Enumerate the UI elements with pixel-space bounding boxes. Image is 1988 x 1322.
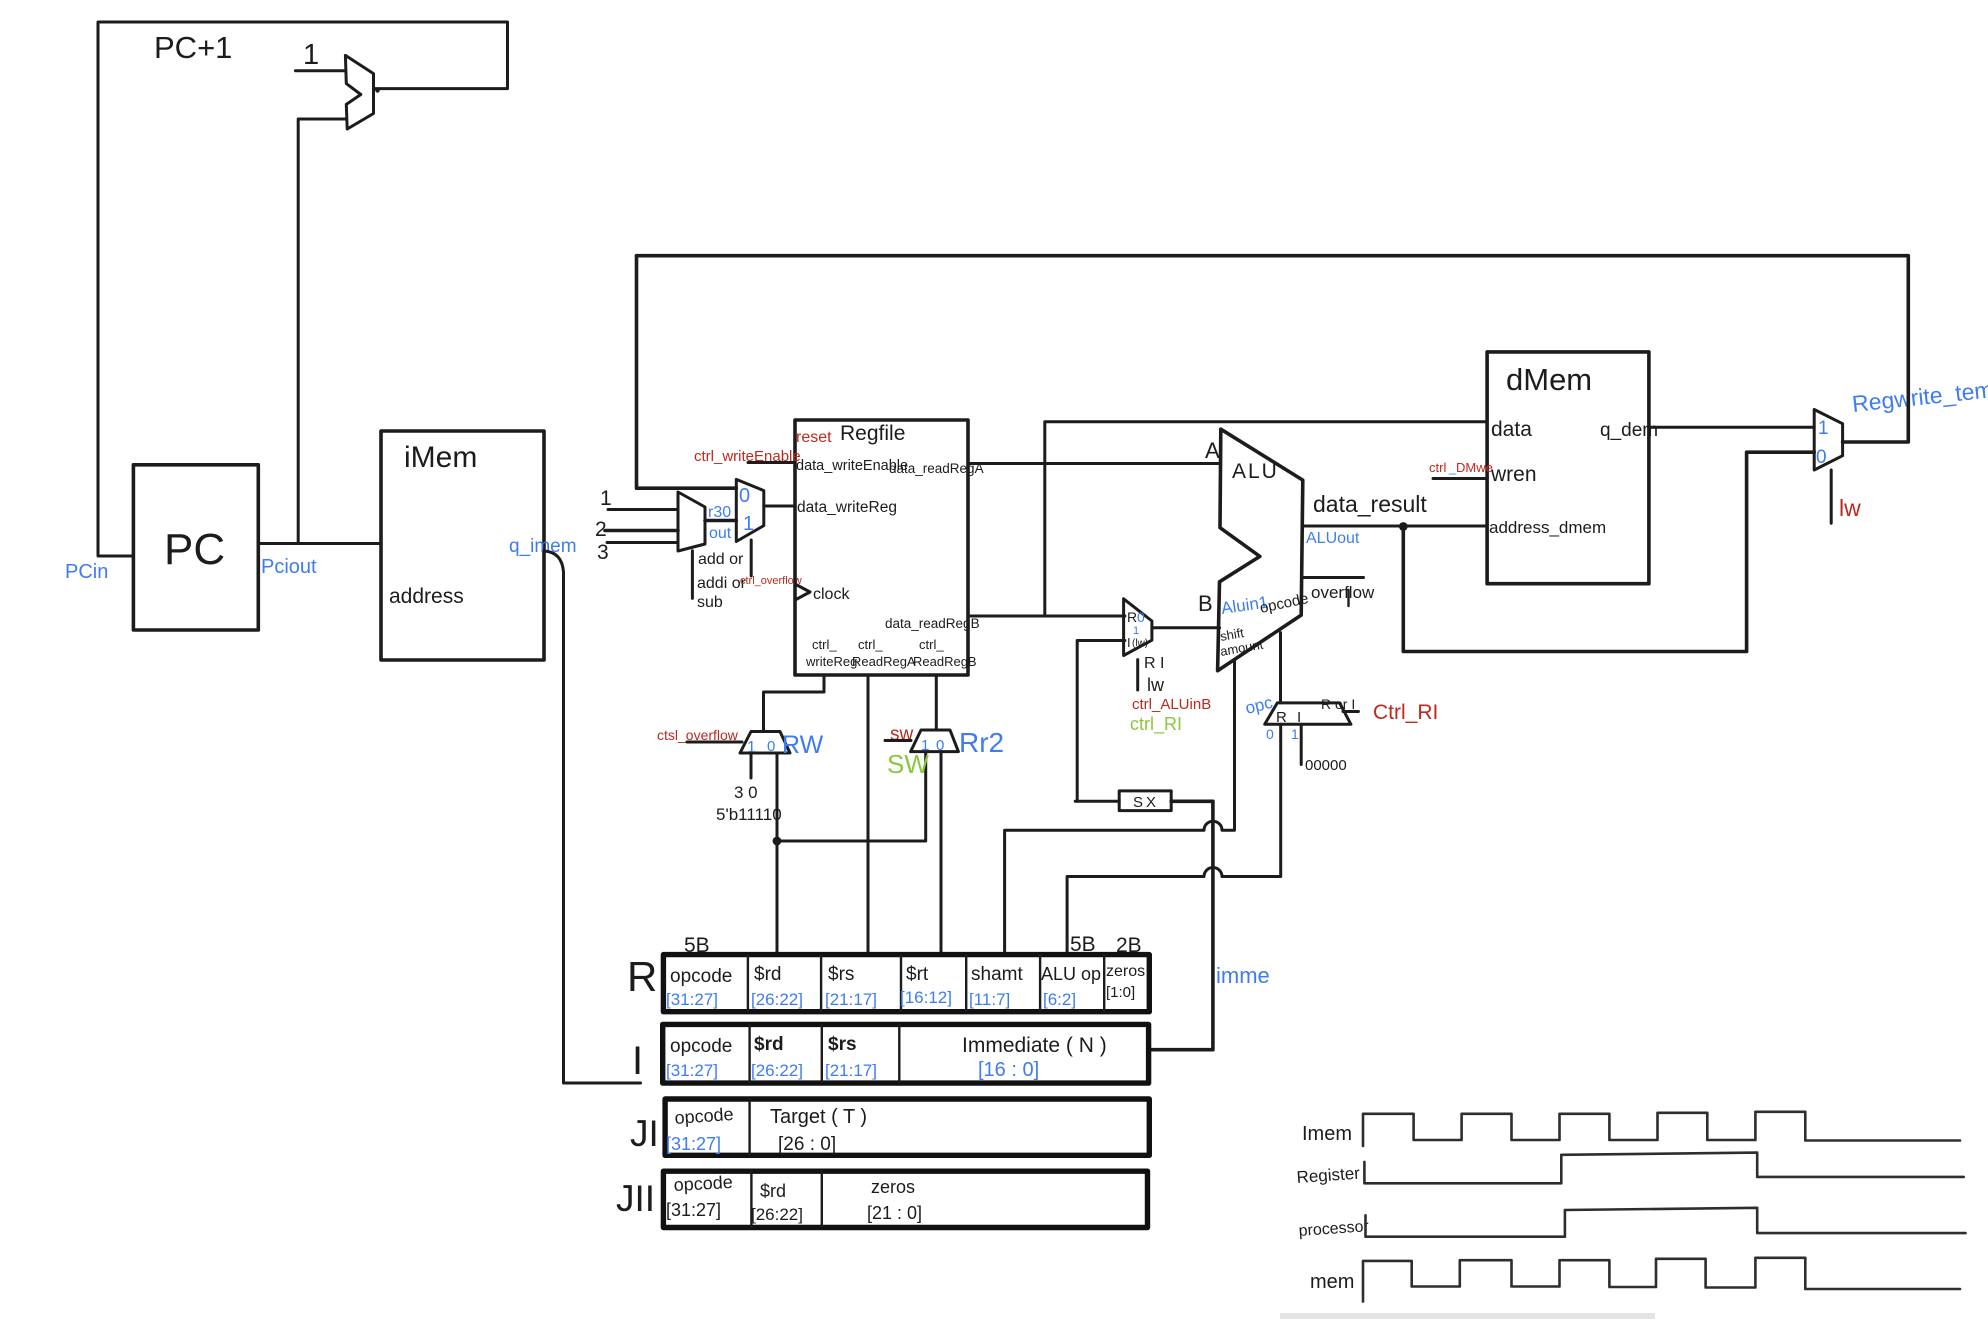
svg-text:r30: r30 (708, 504, 731, 521)
svg-text:opcode: opcode (670, 966, 732, 987)
wire input 3 (607, 541, 678, 544)
waveform Imem clock (1363, 1112, 1960, 1146)
svg-text:ctrl_: ctrl_ (858, 637, 883, 652)
svg-text:[26:22]: [26:22] (751, 1205, 803, 1224)
svg-text:processor: processor (1298, 1218, 1370, 1240)
wire mux2 select (750, 540, 753, 576)
instruction box JI (665, 1099, 1149, 1155)
svg-text:0: 0 (1137, 609, 1145, 625)
wire q_dem to lw mux 1 input (1649, 426, 1814, 429)
svg-text:Regwrite_temp: Regwrite_temp (1851, 375, 1988, 417)
svg-text:0: 0 (767, 738, 775, 755)
wire RW select (687, 741, 742, 744)
wire opcode from RI mux to ALU (1279, 633, 1282, 703)
junction dot RW output branch (773, 837, 782, 846)
junction dot ALU output (1399, 522, 1408, 531)
wire data_readRegA to ALU A (968, 462, 1220, 465)
mux RW (740, 732, 790, 754)
svg-text:sub: sub (697, 594, 723, 611)
mux writeback-select (736, 479, 764, 541)
svg-text:0: 0 (739, 485, 750, 507)
svg-text:ctrl_overflow: ctrl_overflow (740, 575, 802, 587)
memory iMem (381, 431, 544, 660)
svg-text:iMem: iMem (404, 441, 477, 474)
svg-text:clock: clock (813, 586, 850, 603)
wire RI mux 0 input from R box ALU op (1067, 724, 1281, 952)
wire constant 00000 input (1300, 724, 1303, 764)
svg-text:[26 : 0]: [26 : 0] (778, 1134, 836, 1155)
svg-text:imme: imme (1216, 963, 1270, 988)
svg-text:[21 : 0]: [21 : 0] (867, 1203, 922, 1223)
svg-text:zeros: zeros (1106, 963, 1145, 980)
svg-text:[31:27]: [31:27] (666, 990, 718, 1009)
svg-text:SW: SW (887, 749, 929, 779)
svg-text:opcode: opcode (670, 1036, 732, 1057)
instruction box JII (663, 1171, 1147, 1227)
svg-text:$rs: $rs (828, 1034, 857, 1055)
svg-text:1: 1 (1818, 418, 1829, 439)
wire mux1 select add or addi or sub (691, 551, 694, 599)
svg-text:ctrl_: ctrl_ (919, 637, 944, 652)
svg-text:JI: JI (630, 1113, 659, 1154)
svg-text:[31:27]: [31:27] (666, 1200, 721, 1220)
register PC (133, 465, 258, 630)
svg-text:[11:7]: [11:7] (969, 990, 1010, 1009)
svg-text:0: 0 (1816, 447, 1827, 468)
svg-text:mem: mem (1310, 1271, 1354, 1293)
clock triangle (795, 584, 810, 600)
svg-text:shamt: shamt (971, 964, 1023, 985)
svg-text:q_dem: q_dem (1600, 420, 1658, 441)
svg-text:Target ( T ): Target ( T ) (770, 1106, 867, 1128)
svg-text:ctrl_: ctrl_ (812, 637, 837, 652)
svg-text:[21:17]: [21:17] (825, 1061, 877, 1080)
svg-text:3 0: 3 0 (734, 783, 758, 802)
waveform mem clock (1363, 1258, 1960, 1302)
wire adder output feedback loop to PCin (98, 22, 508, 556)
svg-text:0: 0 (1266, 726, 1274, 742)
svg-text:Regfile: Regfile (840, 422, 905, 445)
svg-text:data_writeReg: data_writeReg (797, 499, 897, 516)
wire ctrl_writeEnable into regfile (748, 461, 795, 464)
svg-text:Register: Register (1296, 1164, 1361, 1187)
svg-text:overflow: overflow (1311, 583, 1375, 602)
svg-text:R I: R I (1144, 655, 1164, 672)
svg-text:Rr2: Rr2 (959, 727, 1004, 758)
wire imme vertical from I box (1149, 801, 1213, 1049)
waveform Register (1364, 1153, 1963, 1184)
wire ALU result loop to lw mux 0 input (1403, 452, 1814, 651)
svg-text:ReadRegA: ReadRegA (852, 654, 916, 669)
svg-text:1: 1 (1291, 726, 1299, 742)
svg-text:[21:17]: [21:17] (825, 990, 877, 1009)
wire lw mux output feedback to writeback mux (637, 256, 1909, 442)
svg-text:Imem: Imem (1302, 1123, 1352, 1145)
svg-text:A: A (1205, 438, 1220, 463)
field separator JI (748, 1099, 750, 1155)
wire RW output down to R box $rd with branch to Rr2 (777, 752, 926, 952)
svg-text:RW: RW (782, 731, 824, 759)
junction dot adder output (375, 88, 379, 92)
field separators R (748, 955, 1104, 1011)
wire PC output to iMem address (258, 542, 381, 545)
svg-text:data_readRegB: data_readRegB (885, 616, 980, 631)
svg-text:1: 1 (743, 513, 754, 535)
wire input 1 (608, 508, 678, 511)
svg-text:zeros: zeros (871, 1177, 915, 1197)
wire ctrl_ReadRegA down to R box $rs (867, 675, 870, 952)
instruction box I (663, 1024, 1149, 1083)
svg-text:[31:27]: [31:27] (666, 1061, 718, 1080)
svg-text:opcode: opcode (674, 1104, 734, 1128)
svg-text:[26:22]: [26:22] (751, 990, 803, 1009)
block SX (1119, 791, 1171, 811)
wire constant 1 into adder (295, 69, 345, 72)
instruction box R (663, 955, 1149, 1012)
svg-text:$rd: $rd (760, 1181, 786, 1201)
svg-text:ALUout: ALUout (1306, 530, 1360, 547)
wire SX left output (1075, 800, 1119, 803)
memory dMem (1487, 352, 1649, 584)
mux write-source (add/addi/sub) (678, 492, 705, 551)
svg-text:Immediate ( N ): Immediate ( N ) (962, 1034, 1107, 1057)
wire mux2 output to data_writeReg (764, 505, 795, 508)
svg-text:$rs: $rs (828, 964, 854, 985)
svg-text:PCin: PCin (65, 561, 108, 583)
waveform processor (1366, 1208, 1966, 1237)
wire input 2 (605, 529, 678, 533)
svg-text:(lw): (lw) (1132, 638, 1148, 649)
wire mux1 to mux2 input 1 (705, 519, 736, 523)
svg-text:SX: SX (1133, 794, 1159, 811)
wire readRegB branch up to dMem data (1045, 422, 1487, 616)
wire ALUinB select (1136, 660, 1139, 690)
canvas edge shadow (1280, 1313, 1655, 1319)
svg-text:PC+1: PC+1 (154, 30, 232, 65)
mux Rr2 (911, 730, 959, 752)
wire ALU output data_result (1303, 525, 1487, 528)
svg-text:wren: wren (1490, 463, 1537, 486)
field separators JII (751, 1171, 821, 1227)
mux lw (writeback select) (1814, 410, 1842, 471)
svg-text:1: 1 (1133, 625, 1139, 637)
svg-text:writeReg: writeReg (805, 654, 857, 669)
svg-text:data_result: data_result (1313, 491, 1427, 517)
svg-text:Pciout: Pciout (261, 556, 317, 578)
block Regfile (795, 420, 968, 675)
wire q_imem down to instruction decode (544, 551, 641, 1083)
svg-text:3: 3 (597, 541, 609, 564)
svg-text:PC: PC (164, 525, 225, 574)
svg-text:$rd: $rd (754, 1034, 784, 1055)
svg-text:q_imem: q_imem (509, 536, 577, 557)
svg-text:DMwe: DMwe (1456, 460, 1493, 475)
svg-text:ALU: ALU (1232, 460, 1279, 483)
svg-text:[31:27]: [31:27] (666, 1134, 721, 1154)
wire adder second input from PC output (298, 119, 346, 544)
svg-text:R: R (627, 953, 657, 1000)
svg-text:[6:2]: [6:2] (1043, 990, 1076, 1009)
svg-text:R: R (1127, 609, 1137, 625)
svg-text:[1:0]: [1:0] (1106, 984, 1135, 1001)
wire SX output into ALUinB mux (1077, 641, 1125, 802)
mux ALUinB (1124, 599, 1152, 656)
alu ALU (1218, 429, 1303, 671)
wire data_readRegB to ALUinB mux (968, 615, 1125, 618)
svg-text:out: out (709, 525, 732, 542)
svg-text:5'b11110: 5'b11110 (716, 805, 782, 824)
svg-text:reset: reset (796, 429, 832, 446)
svg-text:00000: 00000 (1305, 757, 1347, 774)
wire overflow stub (1347, 590, 1349, 606)
svg-text:B: B (1198, 591, 1213, 616)
svg-text:[26:22]: [26:22] (751, 1061, 803, 1080)
wire ctrl_DMwe into wren (1433, 477, 1487, 480)
wire shift amount from R box shamt (1005, 660, 1235, 953)
svg-text:I: I (632, 1039, 643, 1083)
field separators I (750, 1025, 900, 1082)
svg-text:1: 1 (600, 487, 612, 510)
svg-text:ReadRegB: ReadRegB (913, 654, 977, 669)
svg-text:$rd: $rd (754, 964, 781, 985)
wire overflow (1302, 576, 1364, 579)
svg-text:address: address (389, 585, 464, 608)
svg-text:opcode: opcode (673, 1172, 733, 1195)
wire Rr2 output down to R box $rt (940, 752, 943, 952)
svg-text:ctrl_ALUinB: ctrl_ALUinB (1132, 696, 1211, 713)
mux RI (opcode) (1265, 703, 1351, 724)
adder PC+1 (345, 55, 373, 129)
svg-text:Ctrl_RI: Ctrl_RI (1373, 701, 1438, 724)
svg-text:data: data (1491, 418, 1532, 441)
svg-text:R or I: R or I (1321, 696, 1355, 712)
svg-text:lw: lw (1147, 675, 1165, 695)
wire RI select (1343, 710, 1358, 713)
svg-text:ctrl_RI: ctrl_RI (1130, 714, 1182, 735)
wire writeback feedback vertical into mux 0 input (637, 256, 737, 489)
wire constant 30 input (750, 753, 753, 778)
wire ctrl_ReadRegB down to Rr2 mux (935, 675, 938, 730)
wire SX right input from imme (1171, 799, 1213, 803)
svg-text:[16:12]: [16:12] (900, 988, 952, 1007)
svg-text:ALU op: ALU op (1041, 964, 1101, 984)
svg-text:dMem: dMem (1506, 362, 1592, 397)
svg-text:$rt: $rt (906, 964, 929, 985)
wire ctrl_writeReg down to RW mux (764, 675, 825, 732)
wire sw select (885, 739, 911, 742)
svg-text:1: 1 (303, 39, 319, 71)
svg-text:JII: JII (616, 1178, 655, 1219)
svg-text:I: I (1127, 635, 1131, 650)
wire lw select (1830, 470, 1833, 523)
svg-text:address_dmem: address_dmem (1489, 518, 1606, 537)
svg-text:lw: lw (1839, 495, 1861, 521)
svg-text:ctrl: ctrl (1429, 460, 1446, 475)
svg-text:add or: add or (698, 551, 744, 568)
wire ALUinB mux output to ALU B (1152, 626, 1220, 629)
svg-text:[16 : 0]: [16 : 0] (978, 1059, 1039, 1081)
